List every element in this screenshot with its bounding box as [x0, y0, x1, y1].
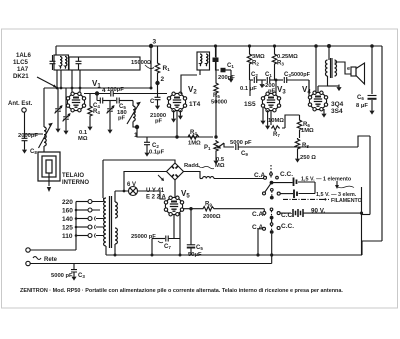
svg-text:C: C	[150, 99, 155, 105]
svg-text:220: 220	[62, 199, 73, 206]
capacitor C5 180pF	[108, 100, 116, 102]
svg-text:e: e	[347, 66, 350, 72]
output transformer	[328, 46, 330, 60]
resistor R9 2000ohm	[183, 208, 202, 210]
svg-text:C8: C8	[30, 149, 37, 155]
svg-text:3: 3	[153, 39, 157, 46]
resistor R4 on wire	[187, 135, 200, 139]
secondary bottom	[115, 228, 117, 244]
trimmer cap under V1 left	[57, 88, 59, 108]
wire R7 to R6	[282, 115, 300, 128]
svg-text:V2: V2	[188, 85, 197, 96]
V2 filament grounds	[173, 110, 175, 116]
svg-text:ZENITRON · Mod. RP50 · Portati: ZENITRON · Mod. RP50 · Portatile con ali…	[20, 288, 343, 294]
svg-text:1MΩ: 1MΩ	[188, 141, 201, 147]
wire node1 to R4 line	[137, 127, 213, 137]
T1 right winding	[65, 57, 67, 69]
svg-text:250 Ω: 250 Ω	[300, 155, 316, 161]
svg-text:Ω: Ω	[147, 60, 151, 66]
svg-text:C.C.: C.C.	[281, 223, 294, 230]
svg-text:R7: R7	[273, 132, 280, 138]
svg-text:pF: pF	[118, 116, 126, 122]
svg-text:R9: R9	[205, 202, 212, 208]
node 4 wire	[84, 93, 110, 95]
svg-text:0.25MΩ: 0.25MΩ	[277, 54, 298, 60]
svg-text:15000: 15000	[131, 60, 147, 66]
node 2 dot	[155, 81, 159, 85]
svg-text:R1: R1	[163, 65, 171, 72]
svg-text:P1: P1	[204, 145, 211, 151]
svg-text:1,5 V. — 1 elemento: 1,5 V. — 1 elemento	[301, 177, 352, 183]
svg-text:100pF: 100pF	[107, 87, 124, 93]
svg-text:V3: V3	[277, 85, 286, 96]
top B+ wire	[56, 45, 382, 47]
svg-text:Ant. Est.: Ant. Est.	[8, 101, 33, 107]
choke coil on switch wire	[203, 177, 214, 179]
svg-text:E 2 2 A: E 2 2 A	[146, 195, 166, 201]
svg-text:MΩ: MΩ	[78, 136, 88, 142]
wire shield box to V1 plate pins	[72, 70, 80, 94]
capacitor C5 50uF feed	[190, 209, 192, 245]
rectifier bridge	[167, 163, 184, 180]
T1 shield long box	[69, 57, 140, 70]
svg-text:5000 pF: 5000 pF	[230, 140, 252, 146]
ground under 21000pF	[155, 103, 160, 110]
svg-text:pF: pF	[155, 119, 163, 125]
svg-text:50000: 50000	[211, 100, 227, 106]
wire B+ to V4	[314, 44, 318, 48]
grid bus wire y88	[44, 88, 151, 125]
node 1 dot	[135, 125, 139, 129]
svg-text:2: 2	[161, 76, 165, 83]
svg-text:C1: C1	[265, 72, 272, 78]
bottom wire	[106, 254, 284, 256]
capacitor C5 50uF	[187, 244, 195, 246]
svg-text:25000 pF: 25000 pF	[131, 234, 156, 240]
wire antenna down	[25, 112, 44, 138]
capacitor 21000pF at node2	[157, 83, 159, 97]
capacitor C1b	[267, 77, 269, 83]
antenna coil L1 variable	[43, 125, 45, 127]
switch row2 of pole	[263, 192, 266, 195]
svg-text:C1: C1	[227, 63, 234, 69]
svg-text:FILAMENTO: FILAMENTO	[331, 198, 362, 204]
resistor R1	[157, 46, 159, 62]
ground between	[261, 80, 263, 82]
wire node3 riser	[150, 46, 152, 88]
battery 90V	[293, 209, 303, 217]
fat cap C1 200pF	[221, 68, 226, 73]
svg-text:3Q4: 3Q4	[331, 101, 344, 108]
shield box capacitor	[76, 61, 82, 63]
capacitor C2	[146, 137, 148, 142]
svg-text:3S4: 3S4	[331, 108, 343, 115]
svg-text:1A7: 1A7	[17, 66, 29, 73]
oscillator coil variable	[132, 101, 134, 107]
svg-text:R5: R5	[213, 93, 220, 99]
svg-text:R4: R4	[93, 109, 100, 115]
svg-text:0.1 μF: 0.1 μF	[240, 86, 257, 92]
right edge wire	[362, 46, 382, 255]
wire V4 grid	[308, 80, 310, 96]
battery 1.5V 1 elemento	[294, 178, 297, 187]
antenna terminal	[22, 108, 26, 112]
svg-text:140: 140	[62, 216, 73, 223]
svg-text:110: 110	[62, 233, 73, 240]
pointer arrow at bridge	[158, 175, 163, 180]
svg-text:C9: C9	[241, 151, 248, 157]
switch assembly row1	[200, 178, 203, 180]
T1 left capacitor C	[50, 61, 56, 63]
svg-text:8 μF: 8 μF	[356, 103, 368, 109]
svg-text:V4: V4	[302, 85, 311, 96]
svg-text:Rete: Rete	[44, 257, 58, 263]
fat cap on feed	[215, 46, 217, 57]
T1 left winding	[60, 57, 62, 69]
selector common wire	[30, 202, 76, 251]
svg-text:160: 160	[62, 208, 73, 215]
tube V4	[308, 91, 327, 111]
svg-text:200pF: 200pF	[218, 75, 235, 81]
capacitor C8	[22, 138, 28, 140]
wire T1 top to B+	[55, 46, 57, 55]
resistor R8 250ohm	[295, 138, 299, 150]
transformer core	[110, 196, 112, 248]
wire V2 cathode down	[176, 111, 178, 137]
svg-text:MΩ: MΩ	[215, 163, 225, 169]
svg-text:1AL6: 1AL6	[16, 52, 32, 59]
svg-text:C6: C6	[357, 95, 364, 101]
IF transformer 2	[197, 52, 210, 70]
V4 ground below	[323, 109, 325, 111]
svg-text:C3: C3	[78, 273, 85, 279]
svg-text:1S5: 1S5	[244, 101, 256, 108]
V3 grounds	[267, 110, 269, 123]
svg-text:1T4: 1T4	[189, 101, 201, 108]
V4 screen ground	[327, 85, 339, 87]
speaker	[335, 62, 352, 74]
svg-text:R2: R2	[252, 61, 259, 67]
battery 1.5V 3 elem	[294, 190, 297, 199]
tube V5	[164, 196, 183, 216]
svg-text:2000Ω: 2000Ω	[203, 214, 221, 220]
FILAMENTO	[283, 198, 329, 200]
svg-text:5000 pF: 5000 pF	[51, 273, 73, 279]
compensa arrow	[336, 181, 338, 185]
wire V2 plate to IF transformer	[181, 70, 200, 94]
svg-text:V1: V1	[92, 79, 101, 90]
svg-text:R3: R3	[277, 61, 284, 67]
telaio interno loop antenna	[38, 152, 60, 181]
capacitor 100pF	[111, 91, 113, 97]
wire node 3 junction dot	[149, 44, 153, 48]
power transformer primary	[104, 198, 106, 246]
svg-text:C2: C2	[251, 72, 258, 78]
svg-text:R8: R8	[302, 143, 309, 149]
svg-text:50μF: 50μF	[188, 252, 202, 258]
capacitor C6 8uF	[370, 44, 374, 48]
arrow from tube list	[37, 77, 56, 87]
selector contacts	[76, 201, 88, 203]
resistor 0.1Mohm under V1	[89, 94, 91, 106]
resistor R6 1Mohm	[299, 115, 301, 119]
capacitor C2b	[254, 77, 256, 83]
ground under C8	[22, 147, 27, 154]
svg-text:1MΩ: 1MΩ	[301, 128, 314, 134]
tube V2	[167, 92, 186, 112]
svg-text:4: 4	[102, 87, 106, 94]
svg-text:90 V.: 90 V.	[311, 208, 325, 215]
resistor R5	[215, 46, 217, 82]
coupling caps row	[250, 79, 254, 81]
svg-text:2000pF: 2000pF	[18, 133, 38, 139]
potentiometer P1	[214, 140, 218, 152]
svg-text:1LC5: 1LC5	[13, 59, 29, 66]
junction dots on AVC line	[175, 135, 178, 138]
svg-text:U Y 41: U Y 41	[146, 188, 165, 194]
svg-text:125: 125	[62, 225, 73, 232]
svg-text:R4: R4	[190, 130, 197, 136]
trimmer mid	[109, 101, 111, 109]
svg-text:C5: C5	[196, 245, 203, 251]
secondary top	[115, 202, 117, 218]
svg-text:INTERNO: INTERNO	[62, 180, 89, 186]
tube V3	[261, 92, 280, 112]
capacitor C3 5000pF	[284, 77, 286, 83]
svg-text:TELAIO: TELAIO	[62, 173, 84, 179]
ground	[230, 70, 232, 76]
bridge wires	[103, 160, 175, 198]
Rete terminals	[26, 248, 30, 252]
resistor R2 3Mohm	[249, 46, 251, 53]
svg-text:0.1μF: 0.1μF	[149, 150, 165, 156]
svg-text:C7: C7	[164, 244, 171, 250]
svg-text:DK21: DK21	[13, 73, 29, 80]
svg-text:C.C.: C.C.	[280, 171, 293, 178]
svg-text:C2: C2	[152, 143, 159, 149]
svg-text:3MΩ: 3MΩ	[252, 54, 265, 60]
trimmer cap under V1 right	[65, 88, 67, 116]
capacitor C4	[97, 94, 100, 101]
wire cap row to V3	[250, 80, 276, 96]
svg-text:5000pF: 5000pF	[291, 72, 311, 78]
antenna transformer T1 box	[54, 55, 69, 70]
tube V1	[66, 92, 85, 112]
wires from T1 down to V1 area	[57, 70, 61, 88]
svg-text:V5: V5	[181, 189, 190, 200]
resistor R3 0.25Mohm	[274, 46, 276, 53]
